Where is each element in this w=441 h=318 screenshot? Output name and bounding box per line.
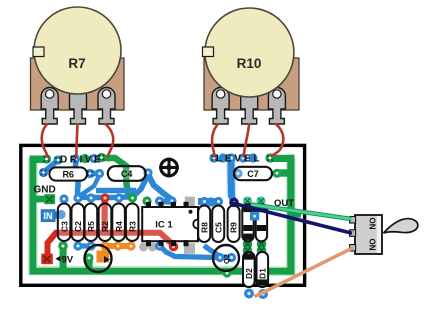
switch lever: [384, 219, 418, 233]
wire switch to D1 (orange): [255, 248, 353, 297]
node Q2 ground pad: [222, 268, 231, 277]
wire C3 ground drop: [60, 243, 67, 271]
capacitor C4: [108, 166, 146, 181]
capacitor C2: [72, 204, 85, 242]
node R6 pads: [39, 168, 104, 178]
wire GND spur: [34, 194, 55, 204]
resistor R5: [85, 204, 98, 242]
resistor R6: [49, 167, 87, 180]
potentiometer R10: [203, 8, 300, 124]
svg-text:R6: R6: [62, 170, 74, 180]
op-amp IC1: [142, 202, 198, 246]
wire blue IC to Q2: [160, 246, 232, 258]
svg-text:Q2: Q2: [222, 254, 231, 264]
transistor Q1: [85, 245, 112, 272]
svg-text:ON: ON: [368, 239, 377, 251]
resistor R4: [112, 204, 125, 242]
wire blue level column: [198, 159, 238, 202]
transistor Q2: [213, 245, 239, 271]
wire pot R10 lug2: [243, 124, 249, 158]
wire bottom blue pads: [78, 243, 91, 248]
diode D4: [242, 204, 253, 241]
wire board to switch (navy): [232, 203, 352, 233]
node R8 C5 R9 pads: [200, 197, 239, 207]
svg-text:C5: C5: [213, 222, 223, 233]
svg-text:GND: GND: [34, 185, 56, 196]
svg-text:R2: R2: [100, 221, 110, 232]
svg-text:R8: R8: [199, 222, 209, 233]
svg-text:IC 1: IC 1: [155, 220, 173, 231]
resistor R9: [228, 206, 240, 243]
svg-text:IN: IN: [44, 211, 53, 221]
diode D3: [256, 204, 267, 241]
node component bottom pads: [58, 241, 157, 251]
node LEVEL pads: [209, 153, 274, 162]
wire orange trace to Q1: [97, 245, 132, 263]
wire board OUT to switch (green): [251, 205, 352, 220]
potentiometer R7: [31, 7, 125, 124]
svg-text:D1: D1: [258, 268, 268, 279]
wire drive pad to R3 trace: [102, 158, 132, 198]
svg-text:C3: C3: [59, 221, 69, 232]
wire pot R7 lug3: [105, 124, 113, 158]
node C7 pads: [233, 169, 281, 178]
svg-text:C4: C4: [121, 169, 133, 179]
svg-text:R3: R3: [127, 221, 137, 232]
wire IN trace: [53, 211, 63, 218]
wire ground left bus: [30, 156, 260, 275]
label 9V: [56, 255, 74, 266]
switch S1: [350, 215, 382, 254]
mounting hole: [159, 158, 179, 178]
node DRIVE pads: [42, 153, 106, 165]
svg-text:R10: R10: [237, 56, 262, 71]
capacitor C7: [234, 167, 272, 180]
svg-text:R9: R9: [229, 222, 239, 233]
svg-text:DRIVE: DRIVE: [60, 155, 103, 166]
node diode bottom pads: [244, 289, 268, 300]
capacitor C5: [212, 206, 224, 243]
node diode mid pads: [243, 239, 267, 255]
svg-text:9V: 9V: [62, 255, 74, 266]
capacitor C3: [58, 204, 71, 242]
node component top pads: [56, 193, 137, 219]
node OUT square pad: [250, 212, 259, 221]
svg-text:R5: R5: [86, 221, 96, 232]
svg-text:R7: R7: [68, 56, 85, 71]
resistor R2: [99, 204, 112, 242]
svg-text:ON: ON: [368, 218, 377, 230]
node IC pads: [142, 196, 195, 253]
wire 9V red rail: [48, 233, 175, 255]
node 9V pad: [41, 254, 53, 265]
node Q2 pads: [215, 253, 236, 262]
wire R2 red drop: [102, 197, 108, 235]
diode D2: [243, 252, 255, 287]
wire pot R10 lug3: [271, 124, 283, 157]
white pad holes: [42, 156, 279, 296]
wire pot R7 lug2: [76, 124, 77, 158]
diode D1: [257, 252, 269, 287]
svg-text:LEVEL: LEVEL: [216, 154, 262, 165]
svg-text:C2: C2: [73, 221, 83, 232]
wire blue serpentine left: [44, 160, 148, 198]
wire ground right bus: [258, 155, 301, 275]
svg-text:R4: R4: [114, 221, 124, 232]
trace halos: [33, 158, 291, 271]
wire blue serpentine C4 to IC: [148, 174, 173, 202]
wire pot R10 lug1: [212, 124, 219, 158]
svg-text:C7: C7: [247, 169, 259, 179]
label IN: [41, 210, 55, 222]
node Q1 pads: [84, 253, 110, 263]
resistor R8: [198, 206, 210, 243]
wire pot R7 lug1: [42, 124, 48, 158]
resistor R3: [126, 204, 139, 242]
node diode top pads: [243, 196, 266, 205]
node C4 pads: [143, 168, 152, 177]
wire Q1 ground drop: [86, 256, 93, 271]
circuit board: [21, 145, 305, 285]
svg-text:D2: D2: [244, 268, 254, 279]
